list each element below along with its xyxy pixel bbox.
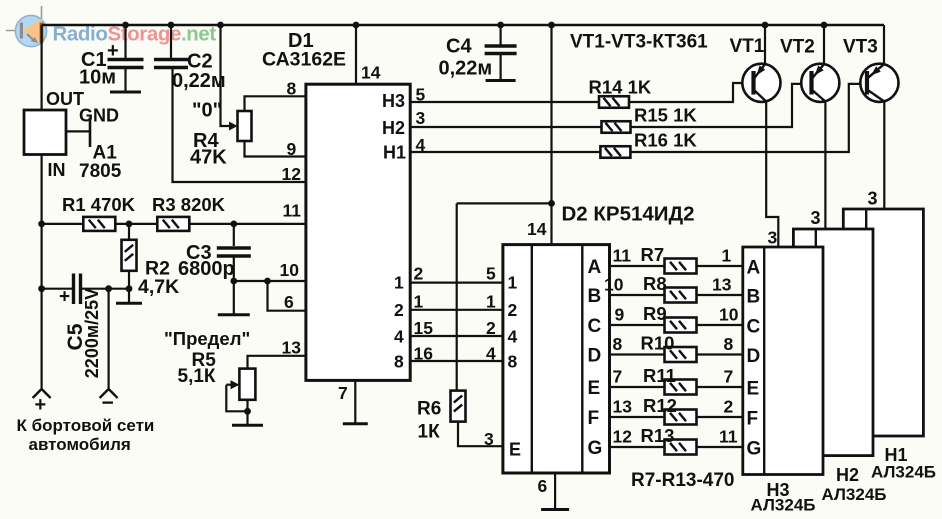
svg-text:Е: Е (588, 378, 601, 399)
svg-text:7: 7 (338, 383, 348, 403)
svg-text:А: А (747, 258, 761, 279)
svg-text:6800р: 6800р (178, 258, 235, 280)
svg-text:VT1: VT1 (730, 36, 765, 57)
svg-text:10: 10 (604, 275, 624, 295)
svg-text:"0": "0" (192, 100, 222, 122)
svg-text:С: С (747, 317, 761, 338)
svg-text:10: 10 (719, 305, 739, 325)
svg-text:1: 1 (414, 292, 424, 312)
svg-text:R7-R13-470: R7-R13-470 (631, 470, 735, 491)
svg-text:5,1К: 5,1К (178, 366, 216, 387)
svg-text:7: 7 (724, 367, 734, 387)
svg-text:G: G (747, 439, 762, 460)
svg-text:D2 КР514ИД2: D2 КР514ИД2 (562, 203, 695, 226)
svg-text:С4: С4 (446, 36, 472, 58)
svg-text:СА3162Е: СА3162Е (262, 49, 346, 71)
svg-text:8: 8 (287, 79, 297, 99)
svg-text:1: 1 (722, 246, 732, 266)
svg-text:13: 13 (613, 397, 633, 417)
svg-text:2: 2 (394, 300, 404, 320)
svg-text:2: 2 (508, 300, 518, 320)
svg-text:9: 9 (615, 305, 625, 325)
svg-text:К бортовой сети: К бортовой сети (17, 416, 155, 435)
svg-text:7: 7 (613, 367, 623, 387)
svg-text:5: 5 (416, 85, 426, 105)
svg-text:АЛ324Б: АЛ324Б (822, 485, 887, 504)
svg-text:8: 8 (613, 334, 623, 354)
svg-text:Н3: Н3 (382, 91, 405, 111)
svg-text:8: 8 (508, 352, 518, 372)
svg-text:Н2: Н2 (382, 118, 405, 138)
svg-text:"Предел": "Предел" (164, 328, 250, 349)
svg-text:11: 11 (283, 201, 302, 221)
svg-text:1К: 1К (418, 422, 441, 443)
svg-text:F: F (588, 408, 600, 429)
svg-text:автомобиля: автомобиля (29, 435, 131, 454)
svg-text:В: В (588, 286, 602, 307)
svg-text:R15 1K: R15 1K (634, 105, 697, 126)
svg-text:R9: R9 (643, 303, 667, 324)
svg-text:15: 15 (414, 318, 434, 338)
svg-text:13: 13 (712, 275, 732, 295)
svg-text:АЛ324Б: АЛ324Б (751, 496, 816, 515)
svg-text:4,7K: 4,7K (138, 276, 179, 298)
svg-text:−: − (102, 392, 114, 415)
svg-text:2: 2 (486, 318, 496, 338)
svg-text:IN: IN (48, 160, 66, 180)
svg-text:12: 12 (613, 427, 633, 447)
svg-text:6: 6 (284, 292, 294, 312)
svg-text:АЛ324Б: АЛ324Б (871, 463, 936, 482)
svg-text:VT3: VT3 (843, 37, 878, 58)
svg-text:В: В (747, 287, 761, 308)
svg-text:4: 4 (416, 135, 426, 155)
svg-text:3: 3 (811, 208, 821, 228)
svg-text:+: + (59, 287, 70, 308)
svg-text:R13: R13 (641, 425, 675, 446)
svg-text:3: 3 (868, 189, 878, 209)
svg-text:3: 3 (416, 108, 426, 128)
svg-text:0,22м: 0,22м (172, 70, 226, 92)
svg-text:D: D (747, 346, 761, 367)
svg-text:Е: Е (747, 379, 760, 400)
svg-text:R3 820K: R3 820K (152, 194, 226, 215)
svg-text:9: 9 (287, 139, 297, 159)
svg-text:R6: R6 (417, 399, 441, 420)
svg-text:6: 6 (538, 476, 548, 496)
svg-text:R1 470K: R1 470K (62, 194, 136, 215)
svg-text:Е: Е (509, 440, 521, 460)
svg-text:R11: R11 (643, 365, 676, 386)
svg-text:2200м/25V: 2200м/25V (82, 288, 102, 378)
svg-text:А: А (588, 257, 602, 278)
svg-text:R8: R8 (643, 273, 667, 294)
svg-text:14: 14 (527, 219, 547, 239)
svg-text:R10: R10 (641, 333, 675, 354)
svg-text:10: 10 (280, 260, 300, 280)
svg-text:11: 11 (613, 246, 632, 266)
svg-text:R16 1K: R16 1K (634, 130, 697, 151)
svg-text:3: 3 (768, 228, 778, 248)
svg-text:3: 3 (484, 429, 494, 449)
svg-text:1: 1 (508, 273, 518, 293)
svg-text:5: 5 (486, 264, 496, 284)
svg-text:VT1-VT3-КТ361: VT1-VT3-КТ361 (570, 32, 708, 53)
svg-text:1: 1 (486, 292, 496, 312)
svg-text:11: 11 (719, 427, 738, 447)
svg-text:F: F (747, 409, 759, 430)
svg-text:10м: 10м (79, 67, 116, 89)
svg-text:4: 4 (394, 327, 404, 347)
svg-text:47K: 47K (190, 147, 227, 169)
svg-text:R12: R12 (643, 395, 677, 416)
svg-text:4: 4 (508, 327, 518, 347)
svg-text:7805: 7805 (79, 161, 122, 182)
svg-text:+: + (107, 40, 119, 62)
svg-text:R14 1K: R14 1K (589, 77, 652, 98)
svg-text:+: + (35, 394, 47, 416)
svg-text:Н1: Н1 (383, 143, 406, 163)
svg-text:С: С (588, 316, 602, 337)
svg-text:4: 4 (486, 344, 496, 364)
svg-text:2: 2 (414, 264, 424, 284)
svg-text:R7: R7 (641, 244, 665, 265)
svg-text:13: 13 (282, 338, 302, 358)
svg-text:12: 12 (282, 164, 302, 184)
svg-text:16: 16 (414, 344, 434, 364)
svg-text:8: 8 (394, 352, 404, 372)
svg-text:G: G (588, 438, 603, 459)
svg-text:Н2: Н2 (836, 465, 859, 485)
svg-text:VT2: VT2 (780, 37, 815, 58)
svg-text:14: 14 (361, 63, 381, 83)
svg-text:2: 2 (724, 397, 734, 417)
svg-text:1: 1 (394, 273, 404, 293)
svg-text:D: D (588, 346, 602, 367)
svg-text:GND: GND (79, 106, 119, 126)
svg-text:8: 8 (724, 334, 734, 354)
svg-text:0,22м: 0,22м (439, 58, 493, 80)
